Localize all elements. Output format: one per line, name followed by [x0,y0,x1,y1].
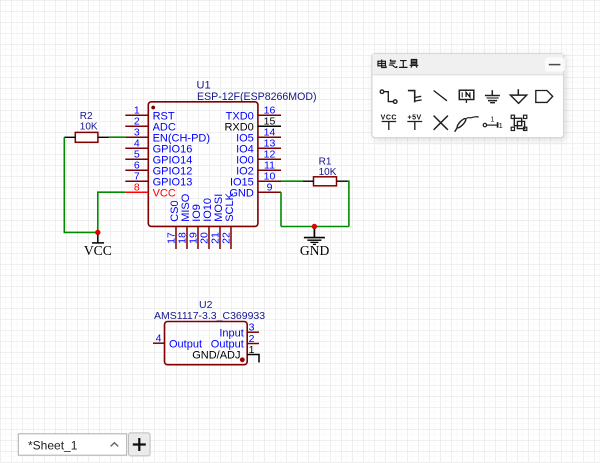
svg-text:4: 4 [156,333,162,345]
U2 pin 1 GND/ADJ (black) [192,344,259,363]
wire U1 pin10 to R1 [281,180,303,182]
sheet tab chevron [111,443,119,447]
svg-text:R2: R2 [80,111,93,122]
wire GND rail horizontal [281,226,349,228]
电 [378,59,386,67]
svg-text:VCC: VCC [84,243,112,258]
tool palette window [372,54,564,138]
icon bus tool [408,91,422,103]
U1 pin 20 IO10 (bottom) [198,198,214,249]
VCC power symbol [92,235,104,243]
svg-text:U1: U1 [197,80,211,92]
icon net label tool [459,90,474,103]
icon no-connect X tool [434,116,448,130]
svg-text:*Sheet_1: *Sheet_1 [28,439,78,453]
net label N [466,92,470,97]
U1 pin 7 GPIO13 [125,171,192,189]
U1 pin 12 IO0 [236,149,281,167]
svg-text:9: 9 [267,182,273,194]
svg-text:10K: 10K [80,122,98,133]
U1 pin 1 RST [125,105,175,123]
svg-text:AMS1117-3.3_C369933: AMS1117-3.3_C369933 [154,310,265,322]
U1 pin 2 ADC [125,116,176,134]
IC U1 body [148,102,258,227]
svg-text:8: 8 [134,182,140,194]
svg-text:GND/ADJ: GND/ADJ [192,349,240,361]
svg-text:GND: GND [300,243,330,258]
U1 pin 6 GPIO12 [125,160,192,178]
svg-text:VCC: VCC [153,187,176,199]
U1 pin 9 GND [229,182,281,200]
R2 right lead [98,136,109,138]
svg-text:22: 22 [220,232,232,244]
U1 pin 19 IO9 (bottom) [187,204,203,249]
wire U1 pin8 to VCC node [98,192,126,232]
wire R2 down to VCC node [64,137,98,232]
U1 pin 8 VCC (red) [125,182,176,200]
icon gnd triangle tool [510,89,526,103]
svg-text:VCC: VCC [381,115,397,122]
junction node VCC (red dot) [95,230,100,235]
sheet tab [18,434,126,455]
plus icon [133,438,146,451]
icon VCC tool [382,122,397,131]
svg-text:R1: R1 [319,157,332,168]
svg-text:1: 1 [499,121,503,130]
palette title 电气工具 (drawn glyphs) [378,59,418,67]
具 [410,59,418,67]
U1 pin 10 IO15 [230,171,281,189]
ground symbol [304,229,325,245]
U1 pin 5 GPIO14 [125,149,192,167]
U1 pin-1 indicator dot [151,106,155,110]
U2 pin 3 Input [219,322,259,340]
U1 pin 22 SCLK (bottom) [220,192,236,249]
U1 pin 21 MOSI (bottom) [209,194,225,249]
icon pen/probe tool [455,117,479,132]
icon group/flatten tool [511,115,527,130]
icon net port tool [536,91,553,103]
R2 left lead [64,136,75,138]
wire U1 pin9 down [280,192,282,226]
U1 pin 15 RXD0 (black) [224,116,281,134]
resistor R1 body [314,177,337,186]
minimize button [545,58,565,72]
U1 pin 17 CS0 (bottom) [165,200,181,249]
U1 pin 13 IO4 [236,138,281,156]
U1 pin 18 MISO (bottom) [176,193,192,249]
U2 pin 4 Output [153,333,202,351]
wire R1 right down to GND rail [348,181,349,226]
IC U2 body [165,322,248,365]
svg-text:3: 3 [249,322,255,334]
icon earth ground tool [485,90,500,103]
resistor R2 body [75,132,98,142]
svg-text:U2: U2 [199,299,213,311]
U1 pin 16 TXD0 [226,105,281,123]
U2 origin dot (dark red) [240,357,245,362]
svg-text:Input: Input [219,327,243,339]
U1 pin 11 IO2 [236,160,281,178]
U1 pin 4 GPIO16 [125,138,192,156]
U1 pin 3 EN(CH-PD) [125,127,210,145]
气 [389,59,397,67]
palette title bar [372,54,563,74]
R1 right lead [337,180,348,182]
icon +5V tool [407,122,422,131]
svg-text:+5V: +5V [408,115,422,122]
工 [399,61,407,68]
svg-text:1: 1 [249,344,255,356]
U1 pin 14 IO5 [236,127,281,145]
junction node GND (red dot) [312,224,317,229]
icon line tool [434,91,447,101]
svg-text:1: 1 [490,117,494,124]
R1 left lead [303,180,314,182]
wire R2 to U1 pin3 [109,136,126,138]
icon wire tool [380,90,397,104]
icon pin tool [483,122,497,128]
U2 pin 2 Output [211,333,259,351]
svg-text:SCLK: SCLK [224,192,236,221]
add sheet button [129,433,151,456]
